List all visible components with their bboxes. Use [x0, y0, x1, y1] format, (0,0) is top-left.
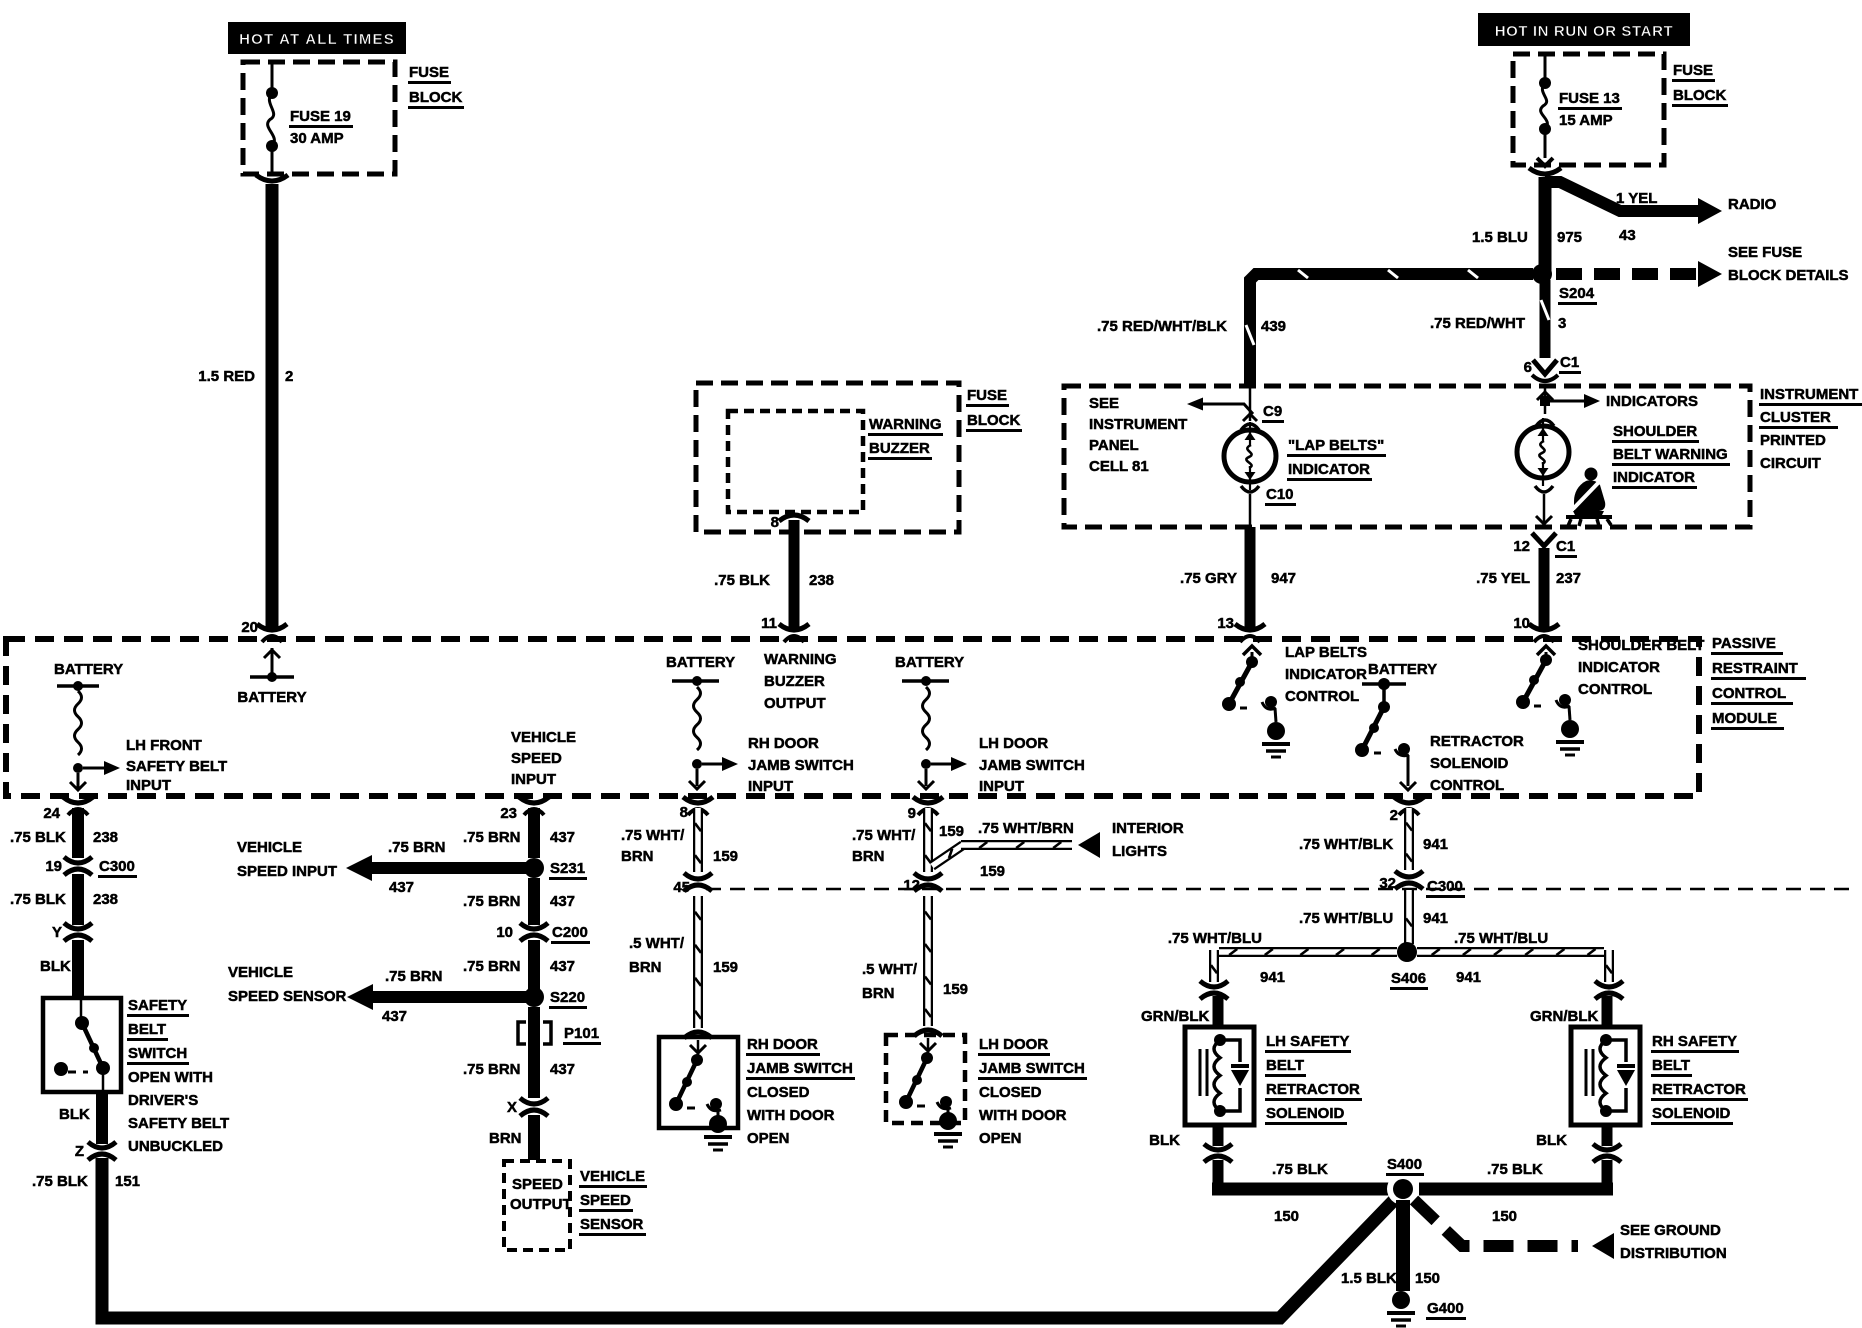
- label SEE INSTRUMENT PANEL CELL 81: [1089, 395, 1187, 475]
- svg-text:BELT: BELT: [128, 1021, 166, 1038]
- svg-text:BRN: BRN: [862, 985, 895, 1002]
- svg-text:947: 947: [1271, 570, 1296, 587]
- svg-text:151: 151: [115, 1173, 140, 1190]
- svg-text:150: 150: [1274, 1208, 1299, 1225]
- module output pin 10 shoulder belt indicator control (switch to ground): [1516, 646, 1584, 755]
- svg-text:BUZZER: BUZZER: [764, 673, 825, 690]
- wire 150 1.5 BLK S400 to G400: [1396, 1200, 1410, 1291]
- label .75 RED/WHT 3: [1430, 315, 1566, 332]
- svg-text:159: 159: [980, 863, 1005, 880]
- svg-text:.75 BRN: .75 BRN: [388, 839, 446, 856]
- splice S231: [524, 858, 587, 880]
- svg-text:S231: S231: [550, 860, 585, 877]
- svg-text:159: 159: [939, 823, 964, 840]
- svg-text:BLOCK: BLOCK: [967, 412, 1020, 429]
- inline harness dashed line: [706, 888, 1855, 891]
- svg-text:.75 WHT/BRN: .75 WHT/BRN: [978, 820, 1074, 837]
- module input pin 9 battery pull-up + LH door jamb switch input: [895, 654, 967, 789]
- label RH SAFETY BELT RETRACTOR SOLENOID: [1651, 1033, 1748, 1125]
- svg-text:437: 437: [382, 1008, 407, 1025]
- svg-text:1 YEL: 1 YEL: [1616, 190, 1657, 207]
- module input pin 8 battery pull-up + RH door jamb switch input: [666, 654, 738, 789]
- svg-text:10: 10: [1513, 615, 1530, 632]
- svg-text:RADIO: RADIO: [1728, 196, 1777, 213]
- svg-text:.5 WHT/: .5 WHT/: [862, 961, 918, 978]
- label WARNING BUZZER: [868, 416, 943, 460]
- svg-text:P101: P101: [564, 1025, 599, 1042]
- connector C1 pin 6: [1524, 354, 1581, 381]
- svg-text:PASSIVE: PASSIVE: [1712, 635, 1776, 652]
- label FUSE BLOCK (top-right): [1672, 62, 1728, 107]
- svg-text:CLOSED: CLOSED: [979, 1084, 1042, 1101]
- svg-text:975: 975: [1557, 229, 1582, 246]
- label WARNING BUZZER OUTPUT: [764, 651, 837, 712]
- label FUSE 19 30 AMP: [289, 108, 353, 147]
- svg-text:BELT WARNING: BELT WARNING: [1613, 446, 1728, 463]
- label FUSE 13 15 AMP: [1558, 90, 1622, 129]
- label .5 WHT/BRN 159 (LH): [862, 961, 968, 1002]
- svg-text:SENSOR: SENSOR: [580, 1216, 644, 1233]
- label .75 BLK 238 (upper): [10, 829, 118, 846]
- svg-text:RETRACTOR: RETRACTOR: [1430, 733, 1524, 750]
- wire GRN/BLK into RH retractor: [1602, 996, 1613, 1027]
- svg-text:C9: C9: [1263, 403, 1282, 420]
- svg-text:OUTPUT: OUTPUT: [510, 1196, 572, 1213]
- svg-text:238: 238: [93, 891, 118, 908]
- wire 941 .75 WHT/BLK pin2 to C300: [1406, 808, 1412, 870]
- svg-text:SPEED: SPEED: [511, 750, 562, 767]
- interior lights tap wire 159 .75 WHT/BRN: [932, 832, 1100, 866]
- label RH DOOR JAMB SWITCH CLOSED WITH DOOR OPEN: [746, 1036, 855, 1147]
- svg-text:SOLENOID: SOLENOID: [1652, 1105, 1731, 1122]
- svg-text:WARNING: WARNING: [869, 416, 942, 433]
- connector C9: [1241, 386, 1284, 430]
- svg-text:VEHICLE: VEHICLE: [580, 1168, 645, 1185]
- label SAFETY BELT SWITCH OPEN WITH DRIVERS SAFETY BELT UNBUCKLED: [127, 997, 229, 1155]
- module pin 11: [761, 615, 809, 642]
- svg-text:BRN: BRN: [621, 848, 654, 865]
- label LAP BELTS INDICATOR CONTROL: [1285, 644, 1367, 705]
- svg-text:LH DOOR: LH DOOR: [979, 1036, 1048, 1053]
- svg-text:BLOCK DETAILS: BLOCK DETAILS: [1728, 267, 1849, 284]
- svg-text:BELT: BELT: [1652, 1057, 1690, 1074]
- svg-text:8: 8: [771, 514, 779, 531]
- svg-text:INSTRUMENT: INSTRUMENT: [1089, 416, 1187, 433]
- label .75 GRY 947: [1180, 570, 1296, 587]
- svg-text:SAFETY: SAFETY: [128, 997, 187, 1014]
- wire see fuse block details (dashed): [1556, 261, 1722, 287]
- module input pin 24 battery pull-up + LH front safety belt input: [54, 661, 123, 790]
- svg-text:INDICATOR: INDICATOR: [1288, 461, 1370, 478]
- svg-text:.75 WHT/BLU: .75 WHT/BLU: [1168, 930, 1262, 947]
- wire BRN X to speed output: [528, 1115, 540, 1160]
- svg-text:1.5 RED: 1.5 RED: [198, 368, 255, 385]
- svg-text:BLK: BLK: [1149, 1132, 1180, 1149]
- svg-text:.75 YEL: .75 YEL: [1476, 570, 1530, 587]
- svg-text:437: 437: [550, 893, 575, 910]
- svg-text:20: 20: [241, 619, 258, 636]
- svg-text:CLOSED: CLOSED: [747, 1084, 810, 1101]
- svg-text:.5 WHT/: .5 WHT/: [629, 935, 685, 952]
- svg-text:BRN: BRN: [852, 848, 885, 865]
- label SPEED OUTPUT: [510, 1176, 572, 1213]
- wire BLK Y to safety belt switch: [72, 940, 84, 998]
- svg-text:SHOULDER BELT: SHOULDER BELT: [1578, 637, 1704, 654]
- label .75 YEL 237: [1476, 570, 1581, 587]
- wire 947 .75 GRY C10 to module pin 13: [1245, 527, 1256, 628]
- svg-text:10: 10: [496, 924, 513, 941]
- label .75 BRN 437 (speed sensor wire): [382, 968, 443, 1025]
- fuse block (fuse 19) dashed box: [243, 62, 395, 174]
- splice S204: [1532, 264, 1597, 305]
- svg-text:SOLENOID: SOLENOID: [1266, 1105, 1345, 1122]
- svg-text:BLK: BLK: [1536, 1132, 1567, 1149]
- svg-text:CIRCUIT: CIRCUIT: [1760, 455, 1821, 472]
- svg-text:437: 437: [550, 1061, 575, 1078]
- wire 437 .75 BRN pin23 to S231: [528, 808, 540, 858]
- wire 150 .75 BLK ground run to S400: [1212, 1183, 1613, 1196]
- svg-text:.75 BRN: .75 BRN: [463, 893, 521, 910]
- svg-text:BRN: BRN: [629, 959, 662, 976]
- svg-text:32: 32: [1379, 875, 1396, 892]
- label BLK (RH retractor): [1536, 1132, 1567, 1149]
- connector C300 pin 32: [1379, 871, 1465, 898]
- svg-text:FUSE: FUSE: [1673, 62, 1713, 79]
- svg-text:2: 2: [1390, 807, 1398, 824]
- svg-text:SPEED SENSOR: SPEED SENSOR: [228, 988, 347, 1005]
- wire 159 .5 WHT/BRN 45 to RH door jamb switch: [695, 896, 701, 1028]
- module pin 2: [1390, 797, 1424, 824]
- svg-text:S406: S406: [1391, 970, 1426, 987]
- wire 237 .75 YEL C1 to module pin 10: [1539, 548, 1550, 628]
- svg-text:.75 BLK: .75 BLK: [32, 1173, 88, 1190]
- connector X: [507, 1098, 548, 1116]
- svg-text:159: 159: [713, 848, 738, 865]
- ground G400: [1387, 1291, 1466, 1326]
- wire 437 .75 BRN S231 to C200: [528, 878, 540, 925]
- connector LH retractor feed: [1200, 981, 1228, 999]
- label VEHICLE SPEED INPUT (module pin 23): [511, 729, 576, 788]
- svg-text:INPUT: INPUT: [511, 771, 556, 788]
- svg-text:12: 12: [1513, 538, 1530, 555]
- label .75 BRN 437 (pin23-S231): [463, 829, 575, 846]
- svg-text:SHOULDER: SHOULDER: [1613, 423, 1697, 440]
- label PASSIVE RESTRAINT CONTROL MODULE: [1711, 635, 1806, 730]
- LH door jamb switch contacts: [899, 1038, 962, 1147]
- svg-text:GRN/BLK: GRN/BLK: [1530, 1008, 1598, 1025]
- svg-text:.75 BLK: .75 BLK: [1487, 1161, 1543, 1178]
- vehicle speed input arrow to left: [346, 855, 530, 881]
- svg-text:Y: Y: [52, 924, 62, 941]
- fuse F13 15A: [1537, 54, 1553, 166]
- label .75 WHT/BRN 159 (pin9): [852, 823, 964, 865]
- vehicle speed sensor arrow to left: [347, 984, 530, 1010]
- svg-text:1.5 BLK: 1.5 BLK: [1341, 1270, 1397, 1287]
- passive restraint control module dashed box: [6, 639, 1699, 796]
- label RH DOOR JAMB SWITCH INPUT: [748, 735, 854, 795]
- connector P101: [518, 1022, 601, 1045]
- module pin 13: [1217, 615, 1265, 642]
- svg-text:INSTRUMENT: INSTRUMENT: [1760, 386, 1858, 403]
- label SHOULDER BELT INDICATOR CONTROL: [1578, 637, 1704, 698]
- svg-text:RESTRAINT: RESTRAINT: [1712, 660, 1798, 677]
- svg-text:437: 437: [550, 958, 575, 975]
- module pin 8: [680, 797, 713, 821]
- svg-text:C1: C1: [1556, 538, 1575, 555]
- svg-text:G400: G400: [1427, 1300, 1464, 1317]
- svg-text:FUSE: FUSE: [409, 64, 449, 81]
- wire 439 .75 RED/WHT/BLK S204 to C9: [1246, 270, 1533, 386]
- svg-text:HOT IN RUN OR START: HOT IN RUN OR START: [1495, 23, 1674, 40]
- svg-text:BRN: BRN: [489, 1130, 522, 1147]
- svg-text:OPEN WITH: OPEN WITH: [128, 1069, 213, 1086]
- svg-text:6: 6: [1524, 359, 1532, 376]
- svg-text:3: 3: [1558, 315, 1566, 332]
- svg-text:BATTERY: BATTERY: [1368, 661, 1437, 678]
- svg-text:VEHICLE: VEHICLE: [511, 729, 576, 746]
- svg-text:150: 150: [1492, 1208, 1517, 1225]
- label SEE GROUND DISTRIBUTION: [1620, 1222, 1727, 1262]
- svg-text:BATTERY: BATTERY: [54, 661, 123, 678]
- label .75 WHT/BRN 159 (interior lights): [978, 820, 1074, 880]
- label .5 WHT/BRN 159 (RH): [629, 935, 738, 976]
- connector C200 pin 10: [496, 923, 590, 944]
- label 1.5 BLK 150: [1341, 1270, 1440, 1287]
- svg-text:UNBUCKLED: UNBUCKLED: [128, 1138, 223, 1155]
- svg-text:159: 159: [713, 959, 738, 976]
- label INTERIOR LIGHTS: [1112, 820, 1184, 860]
- svg-text:GRN/BLK: GRN/BLK: [1141, 1008, 1209, 1025]
- svg-text:150: 150: [1415, 1270, 1440, 1287]
- connector C10: [1241, 486, 1296, 527]
- wire 151 .75 BLK Z to ground run: [102, 1158, 1398, 1318]
- lamp LAP BELTS indicator: [1224, 422, 1276, 490]
- svg-text:.75 BRN: .75 BRN: [385, 968, 443, 985]
- svg-text:.75 BLK: .75 BLK: [10, 891, 66, 908]
- svg-text:"LAP BELTS": "LAP BELTS": [1288, 437, 1384, 454]
- label .75 BLK 238 (lower): [10, 891, 118, 908]
- label .75 WHT/BLK 941: [1299, 836, 1448, 853]
- svg-text:OPEN: OPEN: [979, 1130, 1022, 1147]
- svg-text:238: 238: [809, 572, 834, 589]
- wire 941 .75 WHT/BLU C300 to S406: [1406, 890, 1412, 944]
- svg-text:238: 238: [93, 829, 118, 846]
- label LAP BELTS INDICATOR: [1287, 437, 1386, 481]
- module pin 20: [241, 619, 287, 642]
- svg-text:C10: C10: [1266, 486, 1294, 503]
- svg-text:OUTPUT: OUTPUT: [764, 695, 826, 712]
- svg-text:RH SAFETY: RH SAFETY: [1652, 1033, 1737, 1050]
- label GRN/BLK (LH): [1141, 1008, 1209, 1025]
- wire shoulder lamp to C1 pin 12: [1535, 486, 1553, 524]
- LH safety belt retractor solenoid box: [1185, 1027, 1254, 1125]
- svg-text:.75 WHT/BLU: .75 WHT/BLU: [1299, 910, 1393, 927]
- svg-text:INDICATORS: INDICATORS: [1606, 393, 1698, 410]
- svg-text:C200: C200: [552, 924, 588, 941]
- LH retractor solenoid coil + diode: [1200, 1034, 1249, 1117]
- svg-text:Z: Z: [75, 1143, 84, 1160]
- svg-text:SPEED: SPEED: [512, 1176, 563, 1193]
- svg-text:.75 BRN: .75 BRN: [463, 829, 521, 846]
- svg-text:941: 941: [1423, 836, 1448, 853]
- instrument cluster printed circuit dashed box: [1064, 386, 1750, 527]
- svg-text:S204: S204: [1559, 285, 1595, 302]
- label FUSE BLOCK (buzzer): [966, 387, 1022, 432]
- svg-text:PANEL: PANEL: [1089, 437, 1139, 454]
- svg-text:RH DOOR: RH DOOR: [747, 1036, 818, 1053]
- svg-text:43: 43: [1619, 227, 1636, 244]
- svg-text:23: 23: [500, 805, 517, 822]
- module output pin 13 lap belts indicator control (switch to ground): [1222, 646, 1290, 757]
- svg-text:CONTROL: CONTROL: [1285, 688, 1359, 705]
- svg-text:DISTRIBUTION: DISTRIBUTION: [1620, 1245, 1727, 1262]
- svg-text:OPEN: OPEN: [747, 1130, 790, 1147]
- label FUSE BLOCK (top-left): [408, 64, 464, 109]
- svg-text:.75 BLK: .75 BLK: [1272, 1161, 1328, 1178]
- label .75 BRN 437 (C200-S220): [463, 958, 575, 975]
- label .75 WHT/BLU (right) 941: [1454, 930, 1548, 986]
- label INSTRUMENT CLUSTER PRINTED CIRCUIT: [1759, 386, 1862, 472]
- svg-text:13: 13: [1217, 615, 1234, 632]
- wire 159 .75 WHT/BRN pin8 to 45: [695, 808, 701, 872]
- svg-text:VEHICLE: VEHICLE: [228, 964, 293, 981]
- label .75 WHT/BLU (left) 941: [1168, 930, 1285, 986]
- label .75 BLK (left) 150: [1272, 1161, 1328, 1225]
- svg-text:LH SAFETY: LH SAFETY: [1266, 1033, 1349, 1050]
- splice S400: [1386, 1156, 1424, 1205]
- svg-text:.75 RED/WHT: .75 RED/WHT: [1430, 315, 1525, 332]
- wire 941 .75 WHT/BLU S406 left to LH retractor: [1211, 949, 1397, 982]
- svg-text:.75 WHT/BLU: .75 WHT/BLU: [1454, 930, 1548, 947]
- label BRN: [489, 1130, 522, 1147]
- svg-text:JAMB SWITCH: JAMB SWITCH: [979, 757, 1085, 774]
- label .75 BLK 238 (buzzer): [714, 572, 834, 589]
- label GRN/BLK (RH): [1530, 1008, 1598, 1025]
- label .75 WHT/BLU 941 (C300-S406): [1299, 910, 1448, 927]
- arrow to instrument panel cell 81: [1187, 398, 1253, 415]
- svg-text:RETRACTOR: RETRACTOR: [1652, 1081, 1746, 1098]
- svg-text:FUSE 13: FUSE 13: [1559, 90, 1620, 107]
- vehicle speed sensor (speed output) dashed box: [504, 1161, 570, 1250]
- svg-text:2: 2: [285, 368, 293, 385]
- wire 2 1.5 RED fuse19 to module pin 20: [256, 175, 288, 630]
- svg-text:SEE GROUND: SEE GROUND: [1620, 1222, 1721, 1239]
- svg-text:CLUSTER: CLUSTER: [1760, 409, 1831, 426]
- label LH DOOR JAMB SWITCH INPUT: [979, 735, 1085, 795]
- connector Y: [52, 923, 92, 941]
- svg-text:RH DOOR: RH DOOR: [748, 735, 819, 752]
- svg-text:C300: C300: [1427, 878, 1463, 895]
- buzzer pin 8: [771, 514, 779, 531]
- wire S220 to P101: [528, 1007, 540, 1058]
- svg-text:FUSE 19: FUSE 19: [290, 108, 351, 125]
- svg-text:.75 BLK: .75 BLK: [10, 829, 66, 846]
- svg-text:WITH DOOR: WITH DOOR: [747, 1107, 835, 1124]
- svg-text:30 AMP: 30 AMP: [290, 130, 344, 147]
- module output pin 2 retractor solenoid control (switched battery): [1355, 661, 1437, 790]
- svg-text:.75 WHT/: .75 WHT/: [852, 827, 916, 844]
- label BLK (above switch): [40, 958, 71, 975]
- svg-text:BELT: BELT: [1266, 1057, 1304, 1074]
- svg-text:BATTERY: BATTERY: [666, 654, 735, 671]
- wire 437 .75 BRN C200 to S220: [528, 940, 540, 990]
- svg-text:INPUT: INPUT: [748, 778, 793, 795]
- svg-text:PRINTED: PRINTED: [1760, 432, 1826, 449]
- svg-text:HOT AT ALL TIMES: HOT AT ALL TIMES: [239, 31, 395, 48]
- label SEE FUSE BLOCK DETAILS: [1728, 244, 1849, 284]
- label .75 BLK (right) 150: [1487, 1161, 1543, 1225]
- svg-text:C300: C300: [99, 858, 135, 875]
- svg-text:FUSE: FUSE: [967, 387, 1007, 404]
- module battery feed (pin 20): [237, 648, 306, 706]
- svg-text:BLOCK: BLOCK: [1673, 87, 1726, 104]
- label LH DOOR JAMB SWITCH CLOSED WITH DOOR OPEN: [978, 1036, 1087, 1147]
- svg-text:C1: C1: [1560, 354, 1579, 371]
- svg-text:S220: S220: [550, 989, 585, 1006]
- svg-text:SOLENOID: SOLENOID: [1430, 755, 1509, 772]
- svg-text:237: 237: [1556, 570, 1581, 587]
- svg-text:19: 19: [45, 858, 62, 875]
- svg-text:.75 BLK: .75 BLK: [714, 572, 770, 589]
- splice S406: [1390, 942, 1428, 990]
- power feed label HOT IN RUN OR START: [1478, 13, 1690, 46]
- svg-text:1.5 BLU: 1.5 BLU: [1472, 229, 1528, 246]
- svg-text:SPEED: SPEED: [580, 1192, 631, 1209]
- label BLK (LH retractor): [1149, 1132, 1180, 1149]
- svg-text:BUZZER: BUZZER: [869, 440, 930, 457]
- label RETRACTOR SOLENOID CONTROL: [1430, 733, 1524, 794]
- wire 238 .75 BLK pin24 to C300: [72, 808, 84, 858]
- wire GRN/BLK into LH retractor: [1213, 996, 1224, 1027]
- svg-text:INDICATOR: INDICATOR: [1613, 469, 1695, 486]
- label .75 WHT/BRN 159 (pin8): [621, 827, 738, 865]
- svg-text:LAP BELTS: LAP BELTS: [1285, 644, 1367, 661]
- label VEHICLE SPEED SENSOR (box): [579, 1168, 647, 1236]
- svg-text:8: 8: [680, 804, 688, 821]
- module pin 10: [1513, 615, 1559, 642]
- connector C1 pin 12: [1513, 533, 1577, 558]
- label LH FRONT SAFETY BELT INPUT: [126, 737, 227, 794]
- module pin 24: [43, 797, 93, 822]
- svg-text:.75 WHT/BLK: .75 WHT/BLK: [1299, 836, 1393, 853]
- svg-text:SAFETY BELT: SAFETY BELT: [128, 1115, 229, 1132]
- svg-text:X: X: [507, 1099, 517, 1116]
- svg-text:LH FRONT: LH FRONT: [126, 737, 202, 754]
- LH door jamb switch box: [886, 1030, 965, 1123]
- wire 43 1 YEL branch to radio: [1545, 182, 1722, 224]
- connector C300 pin 19: [45, 857, 137, 878]
- connector Z: [75, 1142, 116, 1160]
- power feed label HOT AT ALL TIMES: [228, 22, 406, 54]
- svg-text:.75 BRN: .75 BRN: [463, 958, 521, 975]
- svg-text:.75 BRN: .75 BRN: [463, 1061, 521, 1078]
- wire 238 .75 BLK C300 to Y: [72, 874, 84, 925]
- svg-text:CELL 81: CELL 81: [1089, 458, 1149, 475]
- svg-text:INPUT: INPUT: [126, 777, 171, 794]
- svg-text:437: 437: [389, 879, 414, 896]
- svg-text:INPUT: INPUT: [979, 778, 1024, 795]
- RH safety belt retractor solenoid box: [1571, 1027, 1640, 1125]
- svg-text:INDICATOR: INDICATOR: [1285, 666, 1367, 683]
- fuse block (fuse 13) dashed box: [1513, 54, 1664, 165]
- label .75 BLK 151: [32, 1173, 140, 1190]
- svg-text:24: 24: [43, 805, 60, 822]
- svg-text:BATTERY: BATTERY: [237, 689, 306, 706]
- label 1.5 RED 2: [198, 368, 293, 385]
- label BLK (below switch): [59, 1106, 90, 1123]
- indicators feed arrow: [1537, 386, 1698, 414]
- wire 159 .75 WHT/BRN pin9 to 12: [925, 808, 931, 872]
